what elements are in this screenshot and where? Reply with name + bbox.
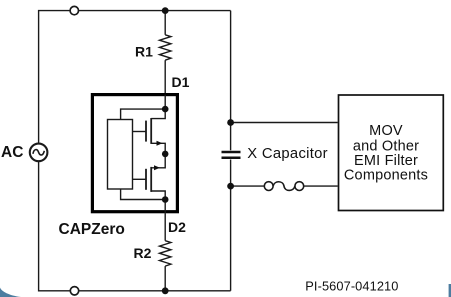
wire D2 to R2 xyxy=(164,213,166,240)
wire R1 branch xyxy=(164,11,166,35)
wire right vertical lower xyxy=(230,160,232,291)
svg-text:R2: R2 xyxy=(134,245,152,261)
wire internal source Q1 to node S xyxy=(151,143,165,154)
node internal S (midpoint) xyxy=(162,151,169,158)
op IC U1 CAPZero box xyxy=(92,95,177,212)
arrow source Q2 xyxy=(154,165,160,170)
wire R2 to bottom rail xyxy=(164,266,166,291)
svg-text:R1: R1 xyxy=(135,44,153,60)
node internal D1 xyxy=(162,106,169,113)
wire fuse link to EMI box xyxy=(304,185,338,187)
node internal D2 xyxy=(162,196,169,203)
control block xyxy=(108,120,133,190)
resistor R1 xyxy=(160,35,171,60)
wire right vertical upper xyxy=(230,11,232,151)
block EMI filter box xyxy=(339,95,444,211)
wire internal top to control block xyxy=(121,109,166,119)
transistor Q2 gate bar xyxy=(145,169,147,190)
fuse link F1 (circle-squiggle-circle) xyxy=(264,182,303,191)
terminal (open) bottom xyxy=(70,287,78,295)
svg-text:D1: D1 xyxy=(172,74,190,90)
node X cap bottom xyxy=(227,183,234,190)
wire internal bottom to control block xyxy=(121,189,166,200)
transistor Q1 channel bar xyxy=(150,118,152,144)
wire lower horizontal to fuse link xyxy=(231,185,265,187)
svg-text:Components: Components xyxy=(344,167,428,183)
node bottom rail / R2 junction xyxy=(162,287,169,294)
node X cap top xyxy=(227,119,234,126)
svg-text:MOV: MOV xyxy=(369,123,403,139)
capacitor CX plates xyxy=(222,152,241,158)
transistor Q2 gate lead xyxy=(133,178,147,180)
wire internal source Q2 from node S xyxy=(151,154,165,168)
transistor Q1 gate lead xyxy=(133,131,147,133)
svg-text:D2: D2 xyxy=(168,219,186,235)
arrow source Q1 xyxy=(157,141,163,146)
decorative slide corner xyxy=(0,288,21,297)
wire left vertical lower xyxy=(39,162,231,291)
transistor Q2 channel bar xyxy=(150,167,152,192)
resistor R2 xyxy=(160,241,171,266)
terminal (open) top xyxy=(70,6,78,14)
svg-text:CAPZero: CAPZero xyxy=(59,221,125,238)
svg-text:PI-5607-041210: PI-5607-041210 xyxy=(305,278,398,293)
wire R1 to CAPZero box xyxy=(164,60,166,93)
transistor Q1 gate bar xyxy=(145,121,147,142)
wire left vertical (AC branch) xyxy=(39,11,231,144)
node top rail / R1 junction xyxy=(162,7,169,14)
wire internal drain line from pin D1 xyxy=(151,95,165,119)
wire internal drain Q2 to pin D2 xyxy=(151,191,165,213)
AC source V1 xyxy=(30,144,48,162)
svg-text:X Capacitor: X Capacitor xyxy=(247,146,328,162)
svg-text:AC: AC xyxy=(1,144,23,161)
wire upper horizontal to EMI box xyxy=(231,122,338,124)
